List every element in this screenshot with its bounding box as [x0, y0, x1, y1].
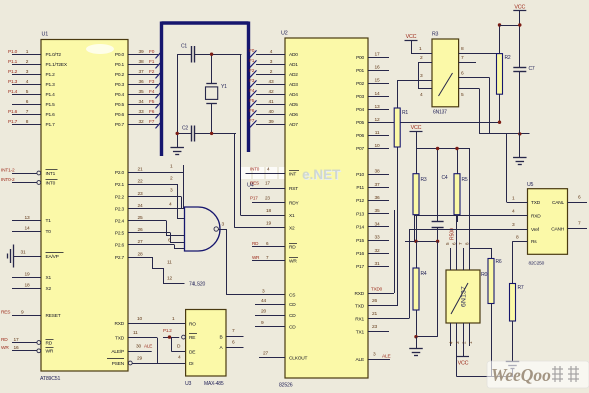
wire U2 CLKOUT pin 27 [259, 350, 308, 361]
wire U2 P02 pin 15 [356, 78, 389, 87]
wire U1 P0.7 pin 32 to bus [115, 119, 163, 129]
svg-text:P1.7: P1.7 [46, 122, 56, 128]
wire U1 ALE/P pin 30 stub [111, 344, 152, 355]
wire crystal left leg [177, 54, 179, 133]
svg-text:15: 15 [375, 78, 380, 84]
wire U1 P2.1 pin 22 [115, 178, 177, 187]
wire U1 P0.2 pin 37 to bus [115, 69, 163, 79]
svg-text:P1.0: P1.0 [8, 49, 18, 55]
svg-text:WR: WR [46, 349, 54, 355]
svg-text:20: 20 [261, 309, 266, 315]
svg-text:25: 25 [138, 215, 143, 221]
svg-text:F1: F1 [249, 58, 255, 64]
wire P2.4 step to U4 [166, 221, 185, 236]
node C7/ground [518, 132, 521, 135]
wire U1 WR pin 16 [1, 345, 54, 354]
svg-text:18: 18 [25, 282, 30, 288]
svg-text:T1: T1 [46, 218, 52, 224]
svg-text:R2: R2 [505, 55, 511, 61]
vcc top right [500, 4, 527, 67]
svg-text:82C250: 82C250 [529, 261, 545, 267]
wire U3 A pin 6 [220, 340, 244, 351]
wire U2 AD4 pin 42 from bus [249, 88, 298, 98]
svg-text:P2.0: P2.0 [115, 170, 125, 176]
transistor R0 optocoupler 6N137 rotated [446, 270, 488, 323]
wire P2.5 step to U4 [170, 233, 185, 243]
wire R3 pin 8 to VCC rail [459, 46, 500, 54]
svg-text:P1.3: P1.3 [8, 79, 18, 85]
wire U1 P2.3 pin 24 [115, 203, 185, 212]
wire to U5 TXD and ground node [479, 134, 529, 203]
ground below R4 [409, 337, 423, 356]
svg-text:F0: F0 [249, 48, 255, 54]
svg-text:P0.4: P0.4 [115, 92, 125, 98]
svg-text:P0.0: P0.0 [115, 52, 125, 58]
svg-text:24: 24 [138, 203, 143, 209]
svg-text:TXD: TXD [531, 200, 541, 206]
svg-text:6N137: 6N137 [461, 286, 468, 307]
svg-text:P2.3: P2.3 [115, 206, 125, 212]
svg-text:F4: F4 [149, 89, 155, 95]
svg-text:RDY: RDY [289, 201, 300, 207]
resistor R4 [413, 241, 427, 336]
svg-text:22: 22 [138, 178, 143, 184]
wire P2.0 to U4 pin 1 [170, 163, 184, 208]
svg-text:P03: P03 [356, 94, 364, 100]
svg-text:F6: F6 [249, 108, 255, 114]
transistor R3 optocoupler 6N137 [432, 32, 459, 116]
wire U1 pin 5 P1.4 [8, 89, 55, 98]
svg-text:P1.2: P1.2 [163, 328, 172, 333]
wire U1 pin 1 P1.0 [8, 49, 61, 58]
wire U1 P2.0 pin 21 [115, 166, 183, 175]
svg-text:F0: F0 [149, 49, 155, 55]
node R2 top [498, 23, 501, 26]
svg-text:AD4: AD4 [289, 92, 298, 98]
svg-text:P1.1: P1.1 [8, 59, 18, 65]
wire U2 TX1 pin 23 [356, 324, 389, 335]
resistor R5 vertical [454, 149, 468, 223]
svg-text:31: 31 [375, 261, 380, 267]
svg-text:AD5: AD5 [289, 102, 298, 108]
svg-text:RD: RD [252, 241, 259, 246]
svg-text:RO: RO [189, 321, 196, 327]
svg-text:R6: R6 [496, 259, 502, 265]
svg-text:8: 8 [465, 242, 470, 245]
capacitor C4 [432, 149, 448, 242]
node R4 bottom [414, 335, 417, 338]
svg-text:P0.2: P0.2 [115, 72, 125, 78]
wire U2 AD6 pin 40 from bus [249, 108, 298, 118]
svg-text:6: 6 [452, 242, 457, 245]
wire U1 pin 4 P1.3 [8, 79, 55, 88]
wire U2 CD pin 20 [255, 309, 296, 319]
svg-text:17: 17 [14, 337, 19, 343]
svg-text:28: 28 [138, 251, 143, 257]
svg-text:X1: X1 [289, 213, 295, 219]
svg-text:32: 32 [375, 248, 380, 254]
wire U2 RXD row net TXD0 [354, 210, 394, 297]
node R2 bottom at P05 [498, 121, 501, 124]
svg-text:P1.5: P1.5 [46, 102, 56, 108]
svg-text:RST: RST [289, 186, 298, 192]
svg-text:TXD: TXD [115, 335, 125, 341]
svg-text:38: 38 [139, 59, 144, 65]
node rail-C4 [436, 240, 439, 243]
wire U3 DI pin 4 [189, 361, 193, 367]
wire U2 RD pin 6 [252, 241, 297, 250]
wire R0 pin 8 to R6 [470, 248, 492, 259]
wire P2.3 to U4 pin 5 [169, 201, 172, 207]
svg-text:F2: F2 [149, 69, 155, 75]
node rail-R4 [414, 240, 417, 243]
svg-text:11: 11 [167, 259, 172, 265]
svg-text:40: 40 [269, 109, 274, 115]
svg-text:10: 10 [137, 316, 142, 322]
svg-text:16: 16 [375, 65, 380, 71]
wire U2 AD0 pin 4 from bus [249, 48, 298, 58]
svg-text:RD: RD [289, 244, 296, 250]
svg-text:CANH: CANH [551, 226, 565, 232]
svg-text:36: 36 [375, 195, 380, 201]
svg-text:CD: CD [289, 302, 296, 308]
svg-text:38: 38 [375, 169, 380, 175]
wire U3 B pin 7 [220, 328, 244, 340]
wire U1 P0.6 pin 33 to bus [115, 109, 163, 119]
wire U1 X2 pin 18 [12, 282, 51, 291]
capacitor C2 [177, 126, 236, 142]
wire U1 P2.5 pin 26 [115, 227, 170, 236]
wire U1 P2.2 pin 23 [115, 191, 181, 200]
wire U2 CD pin 9 [255, 320, 296, 330]
svg-text:R3: R3 [432, 32, 439, 38]
svg-text:Vref: Vref [531, 227, 540, 233]
svg-text:R4: R4 [421, 271, 427, 277]
wire U2 P13 pin 35 [356, 208, 389, 217]
wire U1 pin 2 P1.1 [8, 59, 68, 68]
wire U2 TXD pin 26 to optocoupler R3 [355, 147, 398, 309]
svg-text:P15: P15 [356, 238, 364, 244]
svg-text:VCC: VCC [406, 34, 417, 40]
svg-text:3: 3 [455, 341, 460, 344]
svg-text:AD1: AD1 [289, 62, 298, 68]
svg-text:B: B [220, 335, 223, 341]
wire U2 P04 pin 13 [356, 104, 389, 113]
svg-text:11: 11 [133, 330, 138, 336]
svg-text:P10: P10 [356, 172, 364, 178]
wire U5 Vref pin 3 [409, 222, 540, 233]
wire U1 P2.4 pin 25 [115, 215, 166, 224]
wire U2 P15 pin 33 [356, 235, 389, 244]
wire U4 output pin 3 to U2 CS [218, 221, 285, 295]
node rail R5 top [455, 147, 458, 150]
wire R0 bottom pins 4 3 2 1 [449, 323, 474, 377]
wire U5 CANL pin 6 [552, 194, 587, 206]
svg-text:C4: C4 [442, 175, 448, 181]
svg-text:INT1-2: INT1-2 [1, 167, 15, 173]
svg-text:1: 1 [468, 341, 473, 344]
svg-text:P1.1/T2EX: P1.1/T2EX [46, 62, 68, 68]
wire U1 P0.5 pin 34 to bus [115, 99, 163, 109]
svg-text:19: 19 [25, 272, 30, 278]
svg-text:F1: F1 [149, 59, 155, 65]
wire U1 P0.4 pin 35 to bus [115, 89, 163, 99]
svg-text:WeeQoo: WeeQoo [491, 365, 551, 385]
crystal Y1 [206, 54, 228, 133]
svg-text:RES: RES [1, 310, 10, 316]
svg-text:RX1: RX1 [355, 316, 364, 322]
white smudge watermark on U1 [86, 44, 114, 54]
svg-text:42: 42 [269, 89, 274, 95]
svg-text:P1.6: P1.6 [46, 112, 56, 118]
center watermark white blocks [240, 167, 251, 179]
wire U1 pin 6 P1.5 [12, 99, 55, 108]
svg-text:P2.4: P2.4 [115, 218, 125, 224]
svg-text:P16: P16 [356, 251, 364, 257]
svg-text:19: 19 [266, 220, 271, 226]
svg-text:14: 14 [375, 91, 380, 97]
svg-text:P1.2: P1.2 [8, 69, 18, 75]
svg-text:INT0: INT0 [46, 180, 56, 186]
svg-text:29: 29 [137, 355, 142, 361]
svg-text:P2.7: P2.7 [115, 255, 125, 261]
ground below R7 [506, 362, 520, 377]
svg-text:21: 21 [372, 311, 377, 317]
ground (sideways) on EA/VP [8, 245, 64, 268]
wire U2 AD2 pin 2 from bus [249, 68, 298, 78]
svg-text:P04: P04 [356, 107, 364, 113]
wire U2 WR pin 7 [252, 255, 298, 264]
svg-text:F7: F7 [149, 119, 155, 125]
svg-text:23: 23 [265, 195, 270, 200]
svg-text:VCC: VCC [514, 4, 525, 10]
svg-text:37: 37 [139, 69, 144, 75]
svg-text:39: 39 [269, 119, 274, 125]
wire U2 RX1 pin 21 [355, 229, 409, 322]
wire U1 pin 8 P1.7 [8, 119, 55, 128]
svg-text:26: 26 [138, 227, 143, 233]
svg-text:X2: X2 [46, 286, 52, 292]
svg-text:P2.6: P2.6 [115, 242, 125, 248]
svg-text:P1.4: P1.4 [8, 89, 18, 95]
svg-text:TXD: TXD [355, 303, 365, 309]
svg-text:F5: F5 [149, 99, 155, 105]
svg-text:P2.1: P2.1 [115, 182, 125, 188]
wire U1 T1 pin 13 [12, 215, 51, 224]
svg-text:DI: DI [189, 361, 193, 367]
svg-text:C7: C7 [529, 66, 535, 72]
capacitor C7 [513, 66, 535, 157]
svg-text:10: 10 [375, 143, 380, 149]
wire U2 P07 pin 10 [356, 143, 389, 152]
bus AD0-AD7 (thick) [162, 22, 249, 157]
wire R0 top pins 5 6 7 8 [445, 215, 470, 270]
svg-text:F5: F5 [249, 98, 255, 104]
svg-text:37: 37 [375, 182, 380, 188]
svg-text:P13: P13 [356, 211, 364, 217]
svg-text:P2.2: P2.2 [115, 194, 125, 200]
wire VCC rail to optocoupler pin 8 column [469, 149, 471, 271]
ground below C7 [513, 158, 527, 165]
wire U2 ALE pin 3 [356, 351, 391, 362]
svg-text:39: 39 [139, 49, 144, 55]
svg-text:P11: P11 [356, 185, 364, 191]
wire XTAL2 to U2 X2 [235, 133, 286, 227]
svg-text:MAX-485: MAX-485 [204, 381, 224, 387]
svg-text:X1: X1 [46, 275, 52, 281]
wire U2 P03 pin 14 [356, 91, 389, 100]
svg-text:RE: RE [189, 335, 195, 341]
svg-text:13: 13 [375, 104, 380, 110]
wire U1 P0.0 pin 39 to bus [115, 49, 163, 59]
resistor R3 vertical [413, 149, 427, 242]
wire U2 X1 pin 18 [266, 208, 295, 219]
svg-text:32: 32 [139, 119, 144, 125]
wire R3 pin 6 [459, 70, 490, 133]
wire U2 P06 pin 11 [356, 130, 389, 139]
svg-text:U1: U1 [42, 32, 49, 38]
svg-text:AD2: AD2 [289, 72, 298, 78]
svg-text:WR: WR [289, 258, 297, 264]
node rail C4 top [436, 147, 439, 150]
svg-text:F7: F7 [249, 118, 255, 124]
svg-text:AD0: AD0 [289, 52, 298, 58]
vcc on R3 pin 1 [405, 34, 433, 54]
svg-text:30: 30 [136, 344, 141, 350]
wire U2 P11 pin 37 [356, 182, 389, 191]
svg-text:RES: RES [250, 180, 259, 185]
wire XTAL1 to U2 X1 [241, 54, 286, 215]
op-amp U4 74LS20 NAND gate [185, 183, 254, 288]
resistor R7 [510, 284, 524, 362]
svg-text:16: 16 [14, 345, 19, 351]
center watermark e.NET [302, 167, 342, 183]
svg-text:23: 23 [138, 191, 143, 197]
svg-text:INT0: INT0 [250, 166, 260, 171]
resistor R2 pull-up [497, 25, 511, 122]
svg-text:P12: P12 [356, 198, 364, 204]
wire P2.7 staircase pins 11 12 [152, 257, 185, 284]
svg-text:C2: C2 [182, 126, 188, 132]
svg-text:C1: C1 [181, 44, 187, 50]
wire U2 CD pin 44 [255, 298, 296, 308]
resistor R6 [488, 259, 502, 377]
svg-text:P1.7: P1.7 [8, 119, 18, 125]
wire U1 T0 pin 14 [12, 225, 51, 234]
wire U2 RDY pin 23 [250, 195, 300, 206]
svg-text:P2.5: P2.5 [115, 230, 125, 236]
wire U3 RE pin 2 [182, 334, 197, 342]
wire U1 P0.1 pin 38 to bus [115, 59, 163, 69]
svg-text:27: 27 [263, 350, 268, 356]
svg-text:RXD: RXD [354, 291, 364, 297]
svg-text:21: 21 [138, 166, 143, 172]
svg-text:F3: F3 [149, 79, 155, 85]
wire U1 P0.3 pin 36 to bus [115, 79, 163, 89]
svg-text:CS: CS [289, 293, 295, 299]
svg-text:R3: R3 [421, 177, 427, 183]
wire RC rail [405, 241, 438, 243]
wire U2 AD7 pin 39 from bus [249, 118, 298, 128]
wire U5 Rs pin 8 to R7 [513, 234, 538, 283]
svg-text:R5: R5 [462, 177, 468, 183]
wire R0 pin 3 to right ground [457, 376, 514, 378]
op-amp U2 CAN controller 82526 [279, 31, 368, 389]
svg-text:U3: U3 [185, 381, 192, 387]
svg-text:18: 18 [266, 208, 271, 214]
svg-text:2: 2 [462, 341, 467, 344]
svg-text:R7: R7 [518, 285, 524, 291]
wire U5 CANH pin 7 [551, 221, 587, 233]
svg-text:13: 13 [25, 215, 30, 221]
wire U1 PSEN pin 29 [107, 355, 157, 366]
svg-text:P02: P02 [356, 81, 364, 87]
svg-text:6N137: 6N137 [433, 110, 447, 116]
wire U3 DE pin 3 [177, 344, 195, 356]
svg-text:CD: CD [289, 313, 296, 319]
op-amp U3 MAX-485 transceiver [185, 310, 226, 388]
wire U2 P01 pin 16 [356, 65, 389, 74]
wire U2 AD1 pin 3 from bus [249, 58, 298, 68]
svg-text:R0: R0 [481, 272, 488, 278]
svg-text:R1: R1 [402, 110, 408, 116]
svg-text:27: 27 [138, 239, 143, 245]
svg-text:RXD: RXD [114, 321, 124, 327]
svg-text:5: 5 [445, 242, 450, 245]
svg-text:WR: WR [252, 255, 260, 260]
svg-text:41: 41 [269, 99, 274, 105]
wire net P1.2 to U3 RE/DE [163, 328, 186, 352]
wire R3 pin 7 stub [459, 55, 476, 63]
wire U2 AD5 pin 41 from bus [249, 98, 298, 108]
svg-text:31: 31 [21, 249, 26, 255]
svg-text:F6: F6 [149, 109, 155, 115]
svg-text:X2: X2 [289, 226, 295, 232]
svg-text:VCC: VCC [458, 361, 469, 367]
vcc mid rail [410, 125, 471, 149]
wire U1 P2.6 pin 27 [115, 239, 174, 248]
wire U2 P00 pin 17 [356, 52, 389, 61]
wire U2 CS pin 3 [262, 288, 295, 298]
svg-text:VCC: VCC [411, 125, 422, 131]
op-amp U1 body (AT89C51 MCU) [40, 32, 128, 383]
svg-text:P1.2: P1.2 [46, 72, 56, 78]
svg-text:4: 4 [449, 341, 454, 344]
svg-text:33: 33 [139, 109, 144, 115]
svg-text:AD7: AD7 [289, 122, 298, 128]
svg-text:P00: P00 [356, 55, 364, 61]
svg-text:F3: F3 [249, 78, 255, 84]
wire U1 X1 pin 19 [12, 272, 51, 281]
svg-text:Y1: Y1 [221, 84, 227, 90]
svg-text:12: 12 [167, 275, 172, 281]
wire U2 RST pin 17 [250, 180, 298, 191]
svg-text:74LS20: 74LS20 [189, 282, 205, 288]
wire U2 P05 pin 12 [356, 117, 499, 126]
svg-text:ALE: ALE [356, 357, 364, 363]
svg-text:P0.7: P0.7 [115, 122, 125, 128]
wire U1 RD pin 17 [1, 337, 54, 346]
wire U2 P17 pin 31 [356, 261, 389, 270]
svg-text:INT0-2: INT0-2 [1, 177, 15, 183]
svg-text:12: 12 [375, 117, 380, 123]
WeeQoo watermark box [487, 361, 589, 388]
svg-text:T0: T0 [46, 229, 52, 235]
svg-text:e.NET: e.NET [302, 167, 341, 182]
svg-text:TXD0: TXD0 [371, 286, 383, 291]
wire U1 pin 12 INT1 [1, 167, 58, 176]
svg-text:PSEN: PSEN [112, 361, 125, 367]
